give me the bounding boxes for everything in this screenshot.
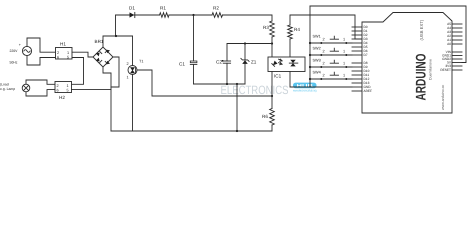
- svg-text:A0: A0: [447, 42, 451, 46]
- svg-text:1: 1: [343, 73, 345, 77]
- wire bridge top to D1 node and T1: [103, 36, 133, 47]
- optocoupler IC1: [268, 57, 305, 79]
- wire lamp bottom to H2 pin6: [26, 90, 55, 96]
- lamp LP1: [0, 82, 30, 91]
- svg-text:e.g. Lamp: e.g. Lamp: [0, 87, 15, 91]
- junction gate node: [271, 95, 273, 97]
- switch SW1: [310, 34, 352, 44]
- capacitor C1: [179, 15, 197, 84]
- resistor R1: [160, 6, 170, 18]
- wire D1 to R1: [135, 14, 160, 16]
- bottom rail: [111, 130, 272, 132]
- wire H1 pin5 to H2 pin1: [72, 58, 84, 85]
- svg-text:H2: H2: [59, 95, 65, 100]
- wire R4 bottom to IC1 pin6: [289, 39, 291, 57]
- capacitor C2: [216, 60, 231, 85]
- wire 5V loop: [310, 6, 466, 63]
- svg-text:SW4: SW4: [313, 70, 321, 74]
- bridge rectifier BR1: [93, 39, 113, 67]
- svg-text:T1: T1: [139, 60, 143, 64]
- svg-text:D1: D1: [129, 6, 135, 11]
- svg-text:2: 2: [57, 51, 59, 55]
- Arduino U1 board outline: [362, 13, 452, 114]
- wire to triac T1 top: [132, 36, 134, 66]
- svg-text:RESET: RESET: [440, 68, 451, 72]
- wire AC bottom to H1 pin6: [27, 56, 56, 65]
- wire node B to C2 and Z1: [227, 44, 272, 62]
- svg-text:IC1: IC1: [274, 74, 282, 79]
- svg-text:1: 1: [67, 51, 69, 55]
- triac T1: [127, 60, 144, 80]
- svg-text:R1: R1: [160, 6, 166, 11]
- svg-text:1: 1: [343, 37, 345, 41]
- svg-text:5: 5: [67, 89, 69, 93]
- svg-text:SW1: SW1: [313, 34, 321, 38]
- svg-text:C1: C1: [179, 62, 185, 67]
- svg-text:2: 2: [323, 74, 325, 78]
- wire bridge bottom to rail: [103, 67, 111, 131]
- svg-text:Duemilanove: Duemilanove: [429, 59, 433, 80]
- svg-text:R4: R4: [294, 27, 300, 32]
- svg-text:2: 2: [323, 38, 325, 42]
- svg-text:Z1: Z1: [251, 60, 257, 65]
- terminal block H1: [56, 42, 73, 60]
- svg-text:50Hz: 50Hz: [10, 60, 18, 64]
- svg-text:1: 1: [67, 84, 69, 88]
- svg-text:2: 2: [127, 62, 129, 66]
- junction SW2 bus: [309, 54, 311, 56]
- diode D1: [129, 6, 136, 18]
- terminal block H2: [55, 82, 72, 101]
- svg-text:BR1: BR1: [95, 39, 104, 44]
- wire IC1 pin4 to GND: [290, 72, 352, 88]
- svg-text:H1: H1: [60, 42, 66, 47]
- svg-text:D7: D7: [364, 53, 368, 57]
- svg-text:2: 2: [323, 62, 325, 66]
- AC source V1 220V 50Hz: [10, 43, 32, 64]
- svg-text:www.arduino.cc: www.arduino.cc: [441, 85, 445, 110]
- junction SW3 bus: [309, 66, 311, 68]
- svg-text:www.electronicshub.org: www.electronicshub.org: [293, 89, 317, 93]
- svg-text:R3: R3: [263, 25, 269, 30]
- wire H2 pin5 to rail: [72, 89, 112, 91]
- switch SW4: [310, 70, 352, 80]
- junction node B: [271, 42, 273, 44]
- svg-text:(Load: (Load: [0, 82, 9, 86]
- switch SW3: [310, 58, 352, 68]
- junction: [115, 35, 117, 37]
- svg-text:1: 1: [343, 61, 345, 65]
- switch bus wire: [309, 6, 311, 87]
- zener diode Z1: [241, 44, 257, 85]
- wire bracket to bottom rail: [236, 84, 238, 131]
- resistor R2: [212, 6, 223, 18]
- junction SW1 bus: [309, 42, 311, 44]
- svg-text:(USB EXT): (USB EXT): [419, 19, 424, 40]
- svg-text:ARDUINO: ARDUINO: [413, 53, 429, 100]
- wire T1 bottom to rail: [132, 75, 134, 132]
- Arduino left pins D0-D13 GND AREF: [352, 25, 372, 93]
- wire cap bottoms bracket: [194, 83, 246, 85]
- svg-text:C2: C2: [216, 60, 222, 65]
- svg-text:5: 5: [67, 56, 69, 60]
- Arduino right pins A5-A0 power: [440, 22, 462, 72]
- svg-text:1: 1: [127, 76, 129, 80]
- node A junction: [192, 14, 194, 16]
- svg-text:6: 6: [57, 56, 59, 60]
- svg-text:2: 2: [57, 84, 59, 88]
- svg-text:R6: R6: [262, 114, 268, 119]
- svg-text:6: 6: [57, 89, 59, 93]
- wire R4 top to Arduino D0: [290, 15, 362, 39]
- wire R2 to R3: [223, 15, 273, 21]
- wire AC top to H1 pin2: [27, 38, 56, 52]
- watermark ELECTRONICS HUB: [221, 83, 317, 97]
- junction on rail: [236, 130, 238, 132]
- svg-text:1: 1: [343, 49, 345, 53]
- switch SW2: [310, 46, 352, 56]
- svg-text:R2: R2: [213, 6, 219, 11]
- wire R1 to node A: [169, 14, 212, 16]
- wire IC1 pin2 to gate node: [271, 72, 273, 97]
- resistor R6: [262, 96, 274, 131]
- wire bridge right down: [111, 57, 119, 87]
- wire H1 pin1 to bridge left: [72, 52, 93, 57]
- svg-text:220V: 220V: [10, 49, 19, 53]
- junction SW4 bus: [309, 78, 311, 80]
- svg-text:AREF: AREF: [364, 89, 373, 93]
- wire T1 gate: [137, 70, 272, 96]
- junction C2 bottom: [226, 83, 228, 85]
- svg-text:SW2: SW2: [313, 46, 321, 50]
- svg-text:ELECTRONICS: ELECTRONICS: [221, 83, 289, 97]
- resistor R4: [288, 25, 301, 39]
- junction mid rail: [236, 83, 238, 85]
- resistor R3: [263, 21, 274, 37]
- svg-text:SW3: SW3: [313, 58, 321, 62]
- svg-text:2: 2: [323, 50, 325, 54]
- wire lamp top to H2 pin2: [26, 80, 55, 84]
- junction Z1 top: [244, 42, 246, 44]
- wire R3 to IC1 pin1: [271, 37, 273, 57]
